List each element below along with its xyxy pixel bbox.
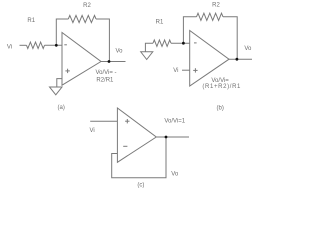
svg-text:(b): (b) [217,106,224,112]
svg-text:Vo: Vo [171,172,179,178]
svg-text:Vo/Vi=: Vo/Vi= [211,78,229,84]
svg-text:Vi: Vi [7,44,12,50]
svg-text:R1: R1 [27,18,35,24]
svg-text:Vi: Vi [173,68,178,74]
svg-text:Vo/Vi=1: Vo/Vi=1 [164,118,185,124]
svg-text:(R1+R2)/R1: (R1+R2)/R1 [202,84,241,90]
svg-text:Vo: Vo [244,46,252,52]
svg-text:R2: R2 [83,3,91,9]
svg-text:R2: R2 [212,3,220,9]
svg-text:(c): (c) [137,182,144,188]
svg-text:R1: R1 [156,19,164,25]
svg-text:(a): (a) [58,105,65,111]
svg-text:Vo/Vi= -: Vo/Vi= - [95,70,116,76]
svg-text:R2/R1: R2/R1 [96,78,114,84]
svg-text:Vo: Vo [115,49,123,55]
svg-text:Vi: Vi [89,128,94,134]
